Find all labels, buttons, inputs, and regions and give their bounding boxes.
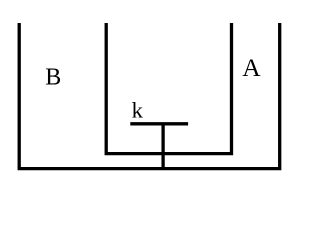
- svg-text:k: k: [132, 98, 144, 123]
- svg-text:B: B: [45, 65, 61, 91]
- valve k stem (tube to outer bottom): [161, 124, 164, 169]
- outer vessel (open-top rectangle): [19, 23, 280, 169]
- inner vessel (open-top rectangle): [106, 23, 231, 154]
- valve k crossbar: [130, 122, 188, 125]
- svg-text:A: A: [242, 53, 261, 82]
